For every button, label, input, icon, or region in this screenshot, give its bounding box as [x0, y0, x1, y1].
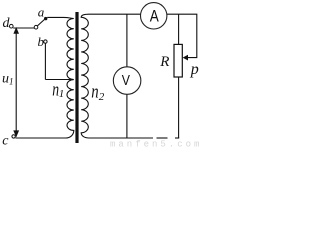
resistor top wire [178, 14, 180, 44]
transformer primary winding n1 [47, 17, 74, 138]
voltmeter branch wire [126, 14, 128, 138]
node d [10, 24, 14, 28]
svg-text:1: 1 [59, 88, 64, 100]
svg-text:a: a [38, 5, 45, 20]
svg-text:n: n [91, 81, 98, 102]
svg-text:A: A [150, 7, 160, 26]
ammeter A [141, 3, 167, 29]
svg-text:c: c [2, 133, 9, 148]
resistor R body [174, 44, 182, 77]
voltmeter V [113, 67, 141, 95]
wire b tap vertical [44, 43, 46, 79]
svg-text:2: 2 [99, 91, 105, 103]
bottom rail right segment 1 [89, 137, 153, 139]
resistor bottom wire [178, 77, 180, 138]
slider arrow p [183, 55, 188, 61]
switch pivot circle [34, 25, 38, 29]
voltage arrow u1 head up [13, 27, 19, 34]
secondary top rail [89, 14, 197, 57]
svg-text:R: R [159, 54, 169, 70]
node b [44, 40, 47, 43]
voltage arrow u1 shaft [15, 29, 17, 134]
svg-text:p: p [190, 61, 199, 78]
svg-text:V: V [122, 72, 130, 88]
switch blade [37, 20, 44, 26]
bottom rail right segment 3 [175, 137, 179, 139]
node c [12, 135, 15, 138]
transformer secondary winding n2 [81, 14, 89, 138]
voltage arrow u1 head down [13, 130, 19, 137]
wire b tap horizontal to coil [45, 79, 73, 81]
wire d to switch pivot [13, 27, 34, 29]
transformer core [75, 12, 78, 143]
node a dot [44, 17, 47, 20]
svg-text:d: d [3, 16, 11, 31]
bottom rail right segment 2 [157, 137, 168, 139]
bottom wire left (c to primary coil) [15, 137, 65, 139]
svg-text:manfen5.com: manfen5.com [110, 140, 201, 150]
